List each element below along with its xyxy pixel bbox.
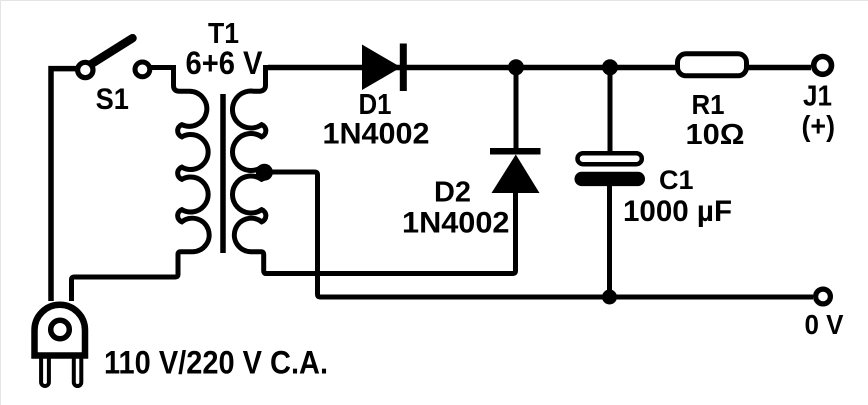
svg-text:6+6 V: 6+6 V	[186, 45, 264, 81]
svg-text:10Ω: 10Ω	[686, 119, 745, 151]
svg-text:J1: J1	[803, 81, 832, 113]
svg-text:S1: S1	[96, 83, 129, 116]
svg-text:110 V/220 V C.A.: 110 V/220 V C.A.	[104, 345, 328, 381]
svg-text:R1: R1	[692, 89, 725, 120]
svg-text:1000 µF: 1000 µF	[623, 195, 732, 228]
svg-text:1N4002: 1N4002	[402, 207, 510, 240]
svg-text:C1: C1	[659, 165, 694, 195]
svg-text:D1: D1	[359, 89, 392, 121]
svg-text:(+): (+)	[802, 111, 836, 143]
svg-text:D2: D2	[434, 177, 471, 209]
svg-text:0 V: 0 V	[805, 309, 844, 340]
svg-text:1N4002: 1N4002	[323, 118, 430, 151]
